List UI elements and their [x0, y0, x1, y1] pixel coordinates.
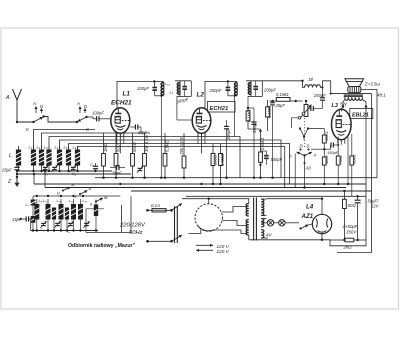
resistor 50kΩ	[131, 133, 138, 178]
wire AF node left	[311, 148, 324, 150]
wire bus d	[131, 190, 372, 192]
svg-text:AZ1: AZ1	[301, 213, 314, 220]
svg-text:25pF: 25pF	[1, 168, 12, 173]
svg-text:0,5MΩ: 0,5MΩ	[260, 138, 265, 150]
svg-text:A: A	[71, 182, 75, 187]
coil L₆ RF row1	[73, 145, 81, 172]
capacitor 50uF electrolytic	[355, 196, 380, 240]
svg-text:250pF: 250pF	[313, 93, 326, 98]
volume potentiometer	[300, 100, 312, 119]
svg-text:48:1: 48:1	[377, 93, 386, 98]
voltage arrows	[196, 244, 230, 254]
svg-text:ECH21: ECH21	[210, 106, 229, 112]
svg-text:0,1MΩ: 0,1MΩ	[246, 110, 251, 122]
transformer secondary heaters	[261, 219, 268, 239]
wire switch arm left down	[294, 154, 296, 188]
capacitor series AF	[308, 106, 317, 111]
svg-text:L₁₂: L₁₂	[83, 199, 88, 203]
wire tube2 pins	[198, 132, 205, 154]
coil L₃ RF row1	[44, 145, 52, 172]
coil L9 osc	[43, 199, 51, 231]
coil L12 osc	[78, 199, 88, 231]
wire band bus 5	[69, 144, 290, 185]
trimmer C4	[70, 165, 77, 176]
svg-text:50Hz: 50Hz	[129, 230, 143, 236]
wire bus c	[45, 186, 346, 188]
svg-text:S: S	[307, 144, 310, 149]
coil L10 IF1 primary	[154, 81, 170, 177]
resistor 80ohm	[343, 191, 357, 240]
label 220/128V 50Hz	[119, 223, 146, 237]
svg-text:50kΩ: 50kΩ	[132, 142, 137, 152]
resistor 1,5Mohm tube2	[219, 144, 226, 184]
transformer primary	[246, 199, 249, 240]
trimmer C5	[137, 166, 143, 173]
svg-text:50kΩ: 50kΩ	[351, 155, 356, 165]
capacitor 200pF IF2 secondary	[248, 81, 276, 97]
wire bus b	[34, 183, 366, 185]
resistor 25k 0,1W	[179, 133, 186, 178]
wire bus a	[16, 173, 131, 175]
svg-text:2×50μF: 2×50μF	[342, 224, 358, 229]
resistor 100ohm tube2	[211, 144, 218, 184]
coil L8 osc	[34, 199, 42, 231]
dial lamps 4V	[261, 220, 299, 238]
svg-text:390pF: 390pF	[252, 121, 257, 133]
svg-text:L₈: L₈	[39, 199, 43, 203]
wire B+ rail top right	[330, 93, 372, 95]
svg-text:50pF: 50pF	[112, 171, 122, 176]
wire tube1 anode to IF1	[117, 81, 154, 108]
wire S1a to S1b	[44, 117, 78, 123]
svg-text:Odbiornik radiowy „Mazur”: Odbiornik radiowy „Mazur”	[68, 243, 136, 249]
switch to rectifier heater	[299, 224, 312, 230]
contact to AGC	[291, 117, 300, 129]
wire band bus 3	[49, 137, 240, 178]
switch osc B	[74, 186, 92, 199]
trimmer C10	[54, 221, 60, 228]
svg-text:L: L	[9, 153, 12, 159]
capacitor 150pF grid EBL21	[324, 137, 339, 155]
svg-text:A: A	[5, 95, 10, 101]
resistor 7Mohm grid leak	[336, 144, 343, 184]
svg-text:220 V: 220 V	[216, 249, 230, 254]
svg-text:50Ω: 50Ω	[116, 144, 121, 152]
trimmer C12	[83, 221, 89, 228]
output transformer 48:1	[344, 95, 363, 100]
tube L3 EBL21	[332, 102, 373, 145]
svg-text:1MΩ: 1MΩ	[324, 155, 329, 164]
wire rectifier output	[321, 234, 323, 240]
resistor 1MΩ	[102, 133, 109, 178]
svg-text:7MΩ: 7MΩ	[338, 155, 343, 164]
coil L RF row1	[9, 146, 21, 171]
capacitor 30pF	[130, 124, 148, 135]
wire right rail down	[371, 94, 373, 191]
svg-text:4V: 4V	[266, 233, 273, 238]
coil L₄ RF row1	[55, 145, 63, 172]
svg-text:D: D	[40, 104, 43, 109]
wire mains top rail	[182, 198, 250, 200]
svg-text:C₆: C₆	[90, 163, 95, 167]
svg-text:200pF: 200pF	[263, 88, 276, 93]
svg-text:L1: L1	[123, 91, 131, 98]
resistor screen EBL21	[350, 134, 357, 196]
selector taps	[215, 207, 248, 234]
svg-text:220/128V: 220/128V	[119, 223, 146, 229]
label 2x50uF 350V	[342, 224, 358, 235]
svg-text:150pF: 150pF	[327, 150, 339, 155]
capacitor 200pF IF1 primary	[136, 80, 157, 96]
wire transformer right lead	[362, 100, 367, 197]
wire band bus 4	[60, 140, 282, 178]
coil L7b osc	[31, 206, 36, 231]
coil L9b osc	[52, 208, 56, 231]
capacitor 50pF	[110, 165, 125, 176]
wire cathode EBL21	[347, 137, 349, 184]
svg-text:A0: A0	[305, 166, 312, 171]
wire tube1 pins	[117, 132, 124, 154]
caption Odbiornik radiowy Mazur	[68, 243, 136, 249]
wire osc rail up	[82, 195, 121, 197]
svg-text:L₂: L₂	[37, 145, 41, 150]
switch contacts upper pair	[299, 127, 309, 140]
resistor 30k 0,1W	[143, 133, 150, 178]
band switch S1b contacts	[76, 101, 90, 132]
resistor 50kohm AF	[308, 129, 329, 151]
svg-text:A: A	[313, 153, 317, 158]
wire IF1 to tube2 grid	[177, 96, 192, 120]
wire bus AVC	[95, 177, 377, 179]
svg-text:L₆: L₆	[73, 145, 77, 150]
mains switch	[146, 204, 182, 244]
svg-text:A: A	[32, 101, 36, 106]
svg-text:100pF: 100pF	[92, 111, 104, 116]
svg-text:1MΩ: 1MΩ	[103, 143, 108, 152]
wire osc to frame	[86, 196, 131, 232]
transformer core	[254, 198, 257, 241]
capacitor 15pF padder	[12, 216, 31, 222]
switch osc M	[90, 195, 108, 207]
resistor 0,1Mohm horizontal	[270, 92, 303, 102]
resistor 0,1Mohm detector	[246, 107, 251, 129]
voltage selector plug	[189, 199, 223, 234]
capacitor 20pF	[270, 101, 285, 178]
wire band bus 2	[42, 133, 151, 150]
svg-text:350V: 350V	[346, 230, 357, 235]
switch linkage dashed	[304, 118, 306, 149]
coil L11 osc	[69, 199, 76, 231]
svg-text:L₄: L₄	[55, 145, 59, 150]
ground Z	[7, 176, 20, 187]
svg-text:L₉: L₉	[170, 91, 174, 95]
coil L₅ RF row1	[64, 145, 72, 172]
svg-text:80Ω: 80Ω	[348, 203, 357, 208]
capacitor 200pF IF2 primary	[209, 80, 231, 96]
trimmer C9	[40, 221, 46, 232]
capacitor 200pF IF1 secondary	[175, 81, 191, 105]
coil L9 IF1 secondary	[170, 81, 192, 95]
resistor 50Ω	[114, 133, 121, 178]
svg-text:D: D	[84, 104, 87, 109]
resistor 1Mohm AF	[322, 149, 329, 184]
wire transformer left lead	[342, 100, 345, 108]
choke Dl	[301, 77, 330, 88]
wire osc top rail	[33, 195, 83, 197]
wire choke to B+ rail	[330, 81, 332, 94]
svg-text:0,1MΩ: 0,1MΩ	[276, 92, 289, 97]
svg-text:25k 0,1W: 25k 0,1W	[179, 136, 184, 155]
wire osc left edge	[30, 219, 32, 231]
svg-text:Z=3,5ω: Z=3,5ω	[364, 82, 381, 87]
tube L2 ECH21	[192, 92, 235, 139]
wire antenna to band switch	[16, 121, 34, 123]
wire detector node	[248, 108, 261, 131]
antenna A	[5, 89, 22, 122]
wire IF2 secondary down	[247, 96, 249, 108]
svg-text:0,1MΩ: 0,1MΩ	[267, 106, 272, 118]
svg-text:0,1MΩ: 0,1MΩ	[165, 140, 170, 152]
svg-text:D: D	[300, 144, 303, 149]
svg-text:L₁₀: L₁₀	[165, 82, 170, 86]
wire coil ground bus	[16, 170, 112, 172]
capacitor 250pF	[313, 87, 326, 109]
coil IF2 secondary	[246, 81, 262, 95]
capacitor 25pF antenna	[1, 166, 20, 177]
svg-text:L₉: L₉	[43, 199, 47, 203]
trimmer C11	[67, 221, 73, 234]
svg-text:A: A	[76, 101, 80, 106]
fuse 0,1A	[146, 203, 171, 212]
coil L₂ RF row1	[37, 145, 45, 172]
svg-text:100Ω: 100Ω	[213, 155, 218, 165]
svg-text:C₉: C₉	[41, 228, 46, 232]
coil L₁ RF row1	[29, 145, 37, 172]
speaker Z=3,5ohm	[345, 79, 386, 98]
coil L10b osc	[65, 208, 69, 231]
resistor 0,1MΩ	[163, 133, 170, 178]
wire bus e	[186, 195, 366, 197]
wire switch to bus	[304, 163, 306, 188]
capacitor 500pF	[261, 151, 283, 165]
capacitor C6	[90, 163, 98, 171]
resistor 0,5Mohm	[259, 130, 265, 178]
wire band bus 6	[78, 147, 285, 188]
wire bottom loop	[330, 191, 372, 253]
wire top B+ feed	[262, 80, 302, 82]
svg-text:1,5MΩ: 1,5MΩ	[220, 154, 225, 166]
svg-text:200pF: 200pF	[136, 86, 149, 91]
svg-text:L2: L2	[197, 92, 205, 99]
svg-text:L₅: L₅	[64, 145, 68, 150]
svg-text:30k 0,1W: 30k 0,1W	[144, 134, 149, 152]
svg-text:200pF: 200pF	[209, 88, 222, 93]
coil IF2 primary	[228, 81, 237, 136]
svg-text:A: A	[288, 154, 292, 159]
wire rectifier HT top	[267, 198, 324, 215]
coil L7 osc	[26, 196, 36, 207]
wire osc bottom bus	[31, 229, 98, 231]
svg-text:L4: L4	[306, 204, 314, 211]
capacitor 390pF	[251, 108, 257, 178]
wire bottom rail	[249, 239, 330, 241]
svg-text:0,1A: 0,1A	[151, 203, 160, 208]
wave switch DSA	[288, 144, 317, 171]
resistor 2kohm	[330, 238, 366, 249]
svg-text:100pF: 100pF	[226, 128, 231, 140]
trimmer C3	[51, 165, 57, 172]
band switch S1a contacts	[26, 101, 45, 132]
wire bus risers	[33, 170, 46, 188]
coil L10 osc	[57, 199, 64, 231]
svg-text:L₃: L₃	[44, 145, 48, 150]
svg-text:2kΩ: 2kΩ	[343, 245, 353, 250]
wire band bus 1	[34, 130, 96, 150]
svg-text:12V: 12V	[371, 204, 380, 209]
svg-text:L3: L3	[332, 103, 339, 109]
capacitor 100pF grid coupling	[87, 111, 111, 122]
trimmer C2	[42, 165, 49, 176]
svg-text:A: A	[88, 186, 92, 191]
resistor 0,1Mohm AGC	[266, 100, 273, 131]
tube L4 AZ1	[301, 204, 332, 234]
tube L1 ECH21	[111, 91, 132, 139]
svg-text:30pF: 30pF	[138, 130, 148, 135]
wire tube2 anode to IF2	[205, 81, 228, 108]
capacitor 100pF detector	[224, 120, 231, 179]
coil L13 osc	[94, 200, 98, 231]
wire anode EBL21	[342, 107, 344, 112]
transformer secondary HT	[261, 199, 266, 216]
svg-text:50kΩ: 50kΩ	[324, 132, 329, 142]
svg-text:D: D	[57, 191, 60, 196]
svg-text:ECH21: ECH21	[111, 100, 132, 107]
wire speaker frame right	[361, 90, 377, 178]
svg-text:20pF: 20pF	[275, 103, 286, 108]
switch osc A	[57, 182, 75, 196]
